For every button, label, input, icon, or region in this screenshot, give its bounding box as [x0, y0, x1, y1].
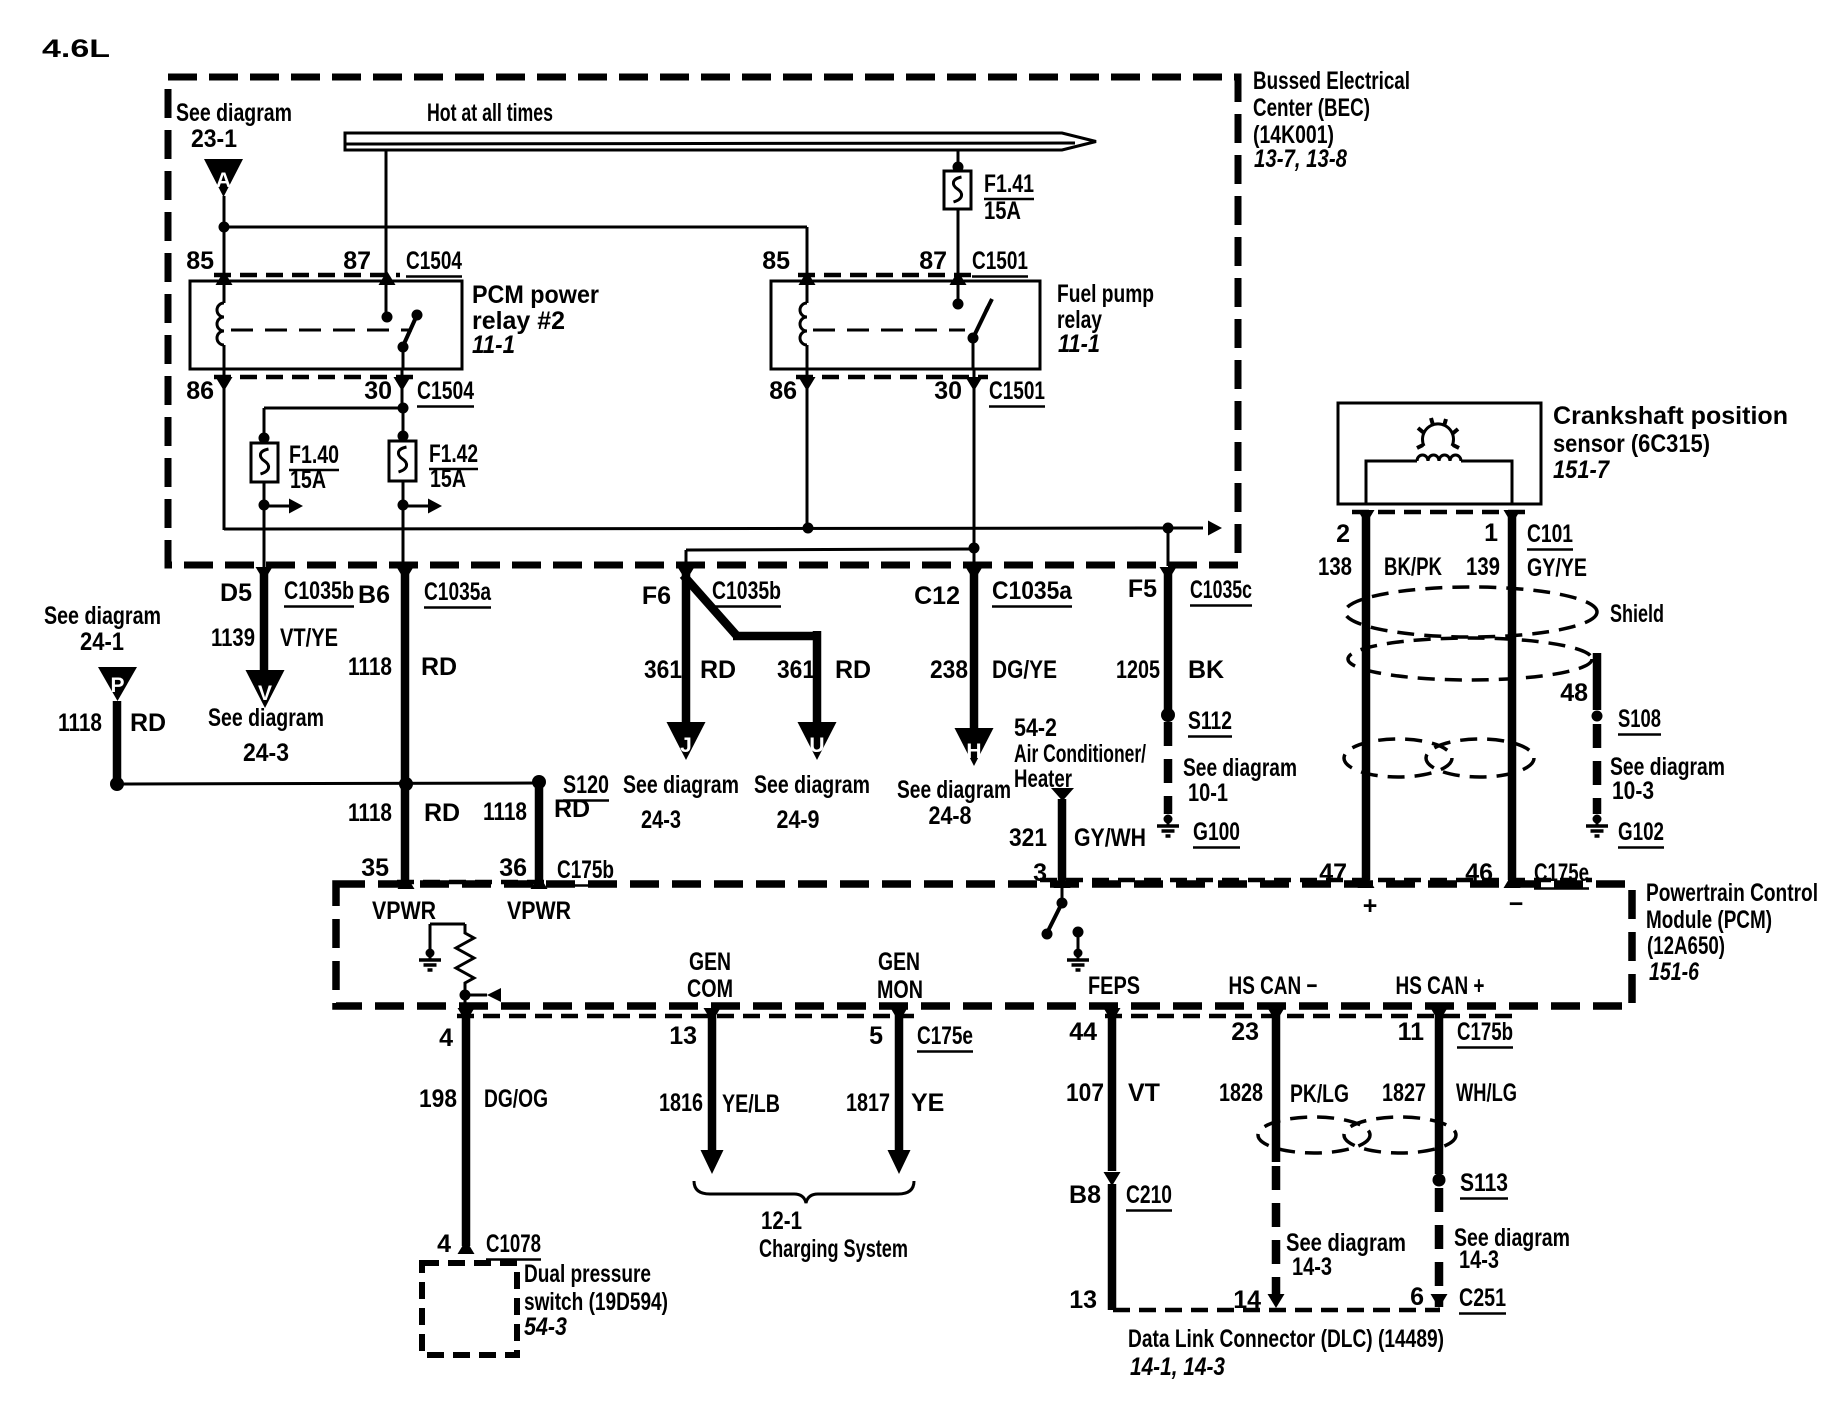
svg-text:G100: G100 — [1193, 818, 1240, 846]
svg-text:VT/YE: VT/YE — [280, 624, 338, 652]
svg-text:Shield: Shield — [1610, 600, 1664, 628]
svg-text:F6: F6 — [642, 582, 671, 610]
svg-text:2: 2 — [1336, 520, 1350, 548]
svg-text:D5: D5 — [220, 579, 252, 607]
svg-text:RD: RD — [835, 656, 871, 684]
svg-text:47: 47 — [1319, 859, 1347, 887]
svg-text:MON: MON — [877, 976, 923, 1004]
svg-text:C175b: C175b — [557, 856, 614, 884]
svg-text:44: 44 — [1069, 1018, 1097, 1046]
svg-text:Hot at all times: Hot at all times — [427, 99, 553, 127]
svg-text:A: A — [216, 169, 231, 192]
svg-text:C251: C251 — [1459, 1284, 1506, 1312]
svg-text:See diagram: See diagram — [623, 771, 739, 799]
svg-text:RD: RD — [554, 795, 590, 823]
svg-text:139: 139 — [1466, 553, 1500, 581]
svg-text:S113: S113 — [1460, 1169, 1508, 1197]
svg-text:13: 13 — [1069, 1286, 1097, 1314]
svg-text:HS CAN −: HS CAN − — [1229, 972, 1318, 1000]
svg-text:U: U — [809, 734, 824, 757]
svg-text:1827: 1827 — [1382, 1079, 1426, 1107]
svg-text:14-1, 14-3: 14-1, 14-3 — [1130, 1353, 1225, 1381]
svg-text:1118: 1118 — [348, 653, 392, 681]
svg-text:sensor (6C315): sensor (6C315) — [1553, 430, 1710, 458]
svg-text:HS CAN +: HS CAN + — [1396, 972, 1485, 1000]
svg-text:1817: 1817 — [846, 1089, 890, 1117]
svg-text:GEN: GEN — [689, 948, 731, 976]
svg-text:See diagram: See diagram — [1183, 754, 1297, 782]
svg-text:10-1: 10-1 — [1188, 779, 1228, 807]
svg-text:1118: 1118 — [483, 798, 527, 826]
svg-text:46: 46 — [1465, 859, 1493, 887]
svg-text:87: 87 — [343, 247, 371, 275]
svg-text:C1501: C1501 — [989, 377, 1045, 405]
svg-text:switch (19D594): switch (19D594) — [524, 1288, 668, 1316]
svg-text:Crankshaft position: Crankshaft position — [1553, 402, 1788, 430]
svg-text:24-3: 24-3 — [641, 806, 681, 834]
svg-text:1828: 1828 — [1219, 1079, 1263, 1107]
svg-text:321: 321 — [1009, 824, 1047, 852]
svg-text:RD: RD — [421, 653, 457, 681]
svg-text:VT: VT — [1128, 1079, 1160, 1107]
svg-text:361: 361 — [644, 656, 682, 684]
svg-text:4: 4 — [437, 1230, 451, 1258]
svg-text:See diagram: See diagram — [897, 776, 1011, 804]
svg-text:See diagram: See diagram — [176, 99, 292, 127]
svg-text:12-1: 12-1 — [761, 1207, 802, 1235]
svg-text:F5: F5 — [1128, 575, 1157, 603]
svg-text:DG/OG: DG/OG — [484, 1085, 548, 1113]
svg-text:86: 86 — [186, 377, 214, 405]
svg-text:13-7, 13-8: 13-7, 13-8 — [1254, 145, 1347, 173]
svg-text:1816: 1816 — [659, 1089, 703, 1117]
svg-text:(12A650): (12A650) — [1647, 932, 1725, 960]
svg-text:86: 86 — [769, 377, 797, 405]
svg-text:C1035b: C1035b — [712, 577, 781, 605]
svg-text:C1078: C1078 — [486, 1230, 541, 1258]
svg-text:S112: S112 — [1188, 707, 1232, 735]
svg-text:VPWR: VPWR — [372, 897, 436, 925]
svg-text:PCM power: PCM power — [472, 281, 599, 309]
svg-text:B6: B6 — [358, 581, 390, 609]
svg-text:C210: C210 — [1126, 1181, 1172, 1209]
svg-text:107: 107 — [1066, 1079, 1104, 1107]
svg-text:24-1: 24-1 — [80, 628, 124, 656]
svg-text:C12: C12 — [914, 582, 960, 610]
svg-text:See diagram: See diagram — [44, 602, 161, 630]
svg-text:23-1: 23-1 — [191, 125, 237, 153]
svg-text:15A: 15A — [984, 197, 1021, 225]
svg-text:FEPS: FEPS — [1088, 972, 1140, 1000]
svg-text:Powertrain Control: Powertrain Control — [1646, 879, 1818, 907]
svg-text:C1035c: C1035c — [1190, 576, 1252, 604]
svg-text:PK/LG: PK/LG — [1290, 1080, 1349, 1108]
svg-text:151-7: 151-7 — [1553, 456, 1610, 484]
svg-text:Module (PCM): Module (PCM) — [1646, 906, 1772, 934]
svg-text:85: 85 — [186, 247, 214, 275]
svg-text:6: 6 — [1410, 1283, 1424, 1311]
svg-text:C1504: C1504 — [417, 377, 474, 405]
svg-text:30: 30 — [934, 377, 962, 405]
svg-text:C175e: C175e — [1534, 859, 1589, 887]
svg-text:C1035b: C1035b — [284, 577, 354, 605]
svg-text:F1.42: F1.42 — [429, 440, 478, 468]
svg-text:B8: B8 — [1069, 1181, 1101, 1209]
svg-text:Fuel pump: Fuel pump — [1057, 280, 1154, 308]
svg-text:GY/YE: GY/YE — [1527, 554, 1587, 582]
svg-text:C175e: C175e — [917, 1022, 973, 1050]
svg-text:See diagram: See diagram — [208, 704, 324, 732]
svg-text:14: 14 — [1233, 1286, 1261, 1314]
svg-text:10-3: 10-3 — [1612, 777, 1654, 805]
svg-text:87: 87 — [919, 247, 947, 275]
svg-text:See diagram: See diagram — [754, 771, 870, 799]
svg-text:14-3: 14-3 — [1459, 1246, 1499, 1274]
svg-text:35: 35 — [361, 854, 389, 882]
svg-text:S108: S108 — [1618, 705, 1661, 733]
svg-text:14-3: 14-3 — [1292, 1253, 1332, 1281]
svg-text:85: 85 — [762, 247, 790, 275]
svg-text:151-6: 151-6 — [1649, 958, 1700, 986]
svg-text:C1504: C1504 — [406, 247, 462, 275]
svg-text:H: H — [966, 740, 981, 763]
svg-text:24-3: 24-3 — [243, 739, 289, 767]
svg-text:13: 13 — [669, 1022, 697, 1050]
svg-text:24-8: 24-8 — [929, 802, 972, 830]
svg-text:COM: COM — [687, 975, 733, 1003]
svg-text:YE/LB: YE/LB — [722, 1090, 780, 1118]
svg-text:23: 23 — [1231, 1018, 1259, 1046]
svg-text:11: 11 — [1398, 1018, 1425, 1046]
svg-text:BK/PK: BK/PK — [1384, 553, 1442, 581]
svg-text:30: 30 — [364, 377, 392, 405]
svg-text:3: 3 — [1033, 859, 1047, 887]
svg-text:238: 238 — [930, 656, 968, 684]
svg-text:GEN: GEN — [878, 948, 920, 976]
svg-text:YE: YE — [911, 1089, 944, 1117]
svg-text:1: 1 — [1484, 519, 1498, 547]
svg-text:11-1: 11-1 — [472, 331, 515, 359]
svg-text:5: 5 — [869, 1022, 883, 1050]
svg-text:C101: C101 — [1527, 520, 1573, 548]
svg-text:36: 36 — [499, 854, 527, 882]
svg-text:+: + — [1363, 892, 1378, 920]
svg-text:RD: RD — [130, 709, 166, 737]
svg-text:4: 4 — [439, 1024, 453, 1052]
svg-text:Center (BEC): Center (BEC) — [1253, 94, 1370, 122]
svg-text:24-9: 24-9 — [777, 806, 820, 834]
svg-text:C175b: C175b — [1457, 1018, 1513, 1046]
svg-text:C1035a: C1035a — [424, 578, 492, 606]
svg-text:RD: RD — [700, 656, 736, 684]
svg-text:DG/YE: DG/YE — [992, 656, 1057, 684]
svg-text:Dual pressure: Dual pressure — [524, 1260, 651, 1288]
svg-text:GY/WH: GY/WH — [1074, 824, 1146, 852]
svg-text:F1.40: F1.40 — [289, 441, 339, 469]
svg-text:54-2: 54-2 — [1014, 714, 1057, 742]
svg-text:361: 361 — [777, 656, 815, 684]
svg-text:11-1: 11-1 — [1058, 330, 1100, 358]
svg-text:Charging System: Charging System — [759, 1235, 908, 1263]
svg-text:−: − — [1509, 890, 1524, 918]
svg-text:1118: 1118 — [348, 799, 392, 827]
svg-text:WH/LG: WH/LG — [1456, 1079, 1517, 1107]
svg-text:C1035a: C1035a — [992, 577, 1073, 605]
svg-text:RD: RD — [424, 799, 460, 827]
svg-text:1118: 1118 — [58, 709, 102, 737]
svg-text:48: 48 — [1560, 679, 1588, 707]
svg-text:1205: 1205 — [1116, 656, 1160, 684]
svg-text:Data Link Connector (DLC) (144: Data Link Connector (DLC) (14489) — [1128, 1325, 1444, 1353]
svg-text:Bussed Electrical: Bussed Electrical — [1253, 67, 1410, 95]
svg-text:1139: 1139 — [211, 624, 255, 652]
svg-text:F1.41: F1.41 — [984, 170, 1034, 198]
svg-text:BK: BK — [1188, 656, 1224, 684]
svg-text:15A: 15A — [290, 466, 326, 494]
svg-text:Air Conditioner/: Air Conditioner/ — [1014, 740, 1146, 768]
svg-text:V: V — [258, 682, 272, 705]
svg-text:J: J — [680, 734, 692, 757]
svg-text:C1501: C1501 — [972, 247, 1028, 275]
svg-text:G102: G102 — [1618, 818, 1664, 846]
svg-text:138: 138 — [1318, 553, 1352, 581]
svg-text:15A: 15A — [430, 465, 466, 493]
svg-text:VPWR: VPWR — [507, 897, 571, 925]
svg-text:54-3: 54-3 — [524, 1313, 567, 1341]
svg-text:198: 198 — [419, 1085, 457, 1113]
svg-text:4.6L: 4.6L — [42, 35, 110, 63]
svg-text:P: P — [110, 674, 124, 697]
